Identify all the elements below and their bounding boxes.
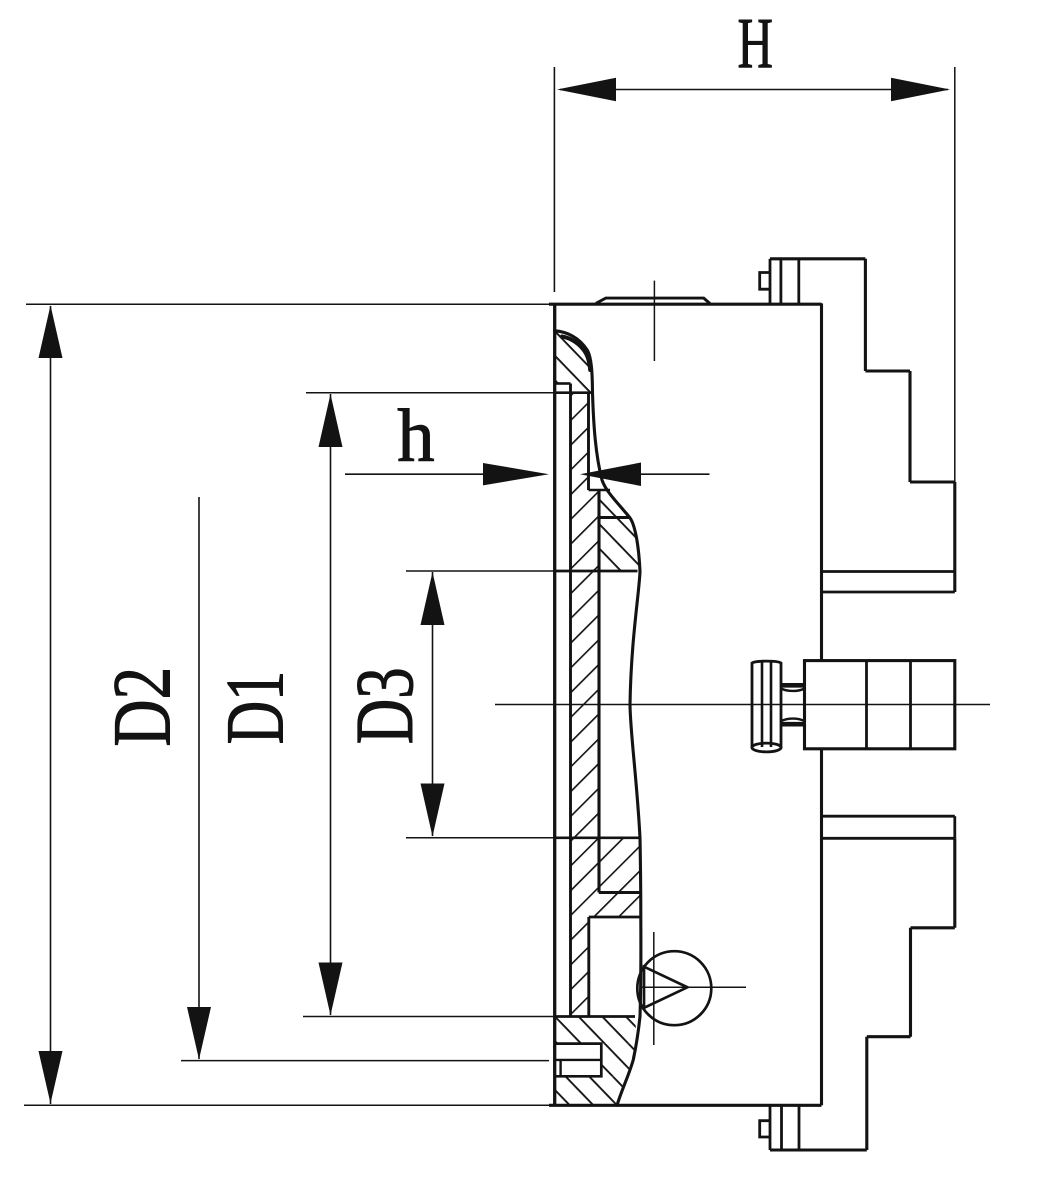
bottom edge [549, 1104, 822, 1107]
section hatch: body lower boss block [599, 838, 641, 917]
jaw key tab [760, 1121, 770, 1137]
dimension h [345, 394, 710, 486]
chuck body outline [549, 298, 822, 1105]
slot top edge [589, 916, 641, 919]
upper internal edge (D1 level internal) [555, 391, 593, 394]
jaw key tab [760, 273, 770, 290]
section hatch: bottom band [555, 1076, 625, 1105]
top chamfered boss [596, 298, 710, 303]
dimension D2 [24, 304, 549, 1105]
section hatch: chuck body top lobe [555, 331, 593, 393]
screw collar bars [781, 683, 805, 688]
svg-text:D1: D1 [208, 671, 301, 745]
svg-text:D2: D2 [98, 667, 189, 747]
bottom guide strip [822, 816, 955, 838]
top edge [549, 303, 822, 306]
section hatch: backplate column [571, 393, 600, 1017]
backplate internal edges [555, 384, 641, 1077]
top guide strip [822, 570, 955, 573]
rear groove top cap [555, 382, 571, 385]
bottom jaw [760, 838, 955, 1150]
lower boss top edge (D3 level internal) [555, 836, 640, 839]
right face upper segment [820, 303, 823, 660]
dimension D3 [338, 571, 555, 838]
top bolt centerline [653, 281, 655, 361]
main axis centerline [495, 704, 990, 706]
side jaw block (end view) [805, 661, 955, 749]
upper column right edge [587, 393, 590, 490]
h step edge [589, 489, 611, 491]
top jaw [760, 259, 955, 592]
lower slot left edge [587, 917, 590, 1017]
break line (freehand wavy section boundary) [555, 331, 641, 1106]
left rear face [553, 303, 556, 1105]
section hatch: band below slot [555, 1017, 637, 1044]
keyway box [555, 1044, 602, 1077]
slot bottom edge (D1 level internal) [555, 1015, 635, 1018]
lobe inner arc detail [562, 337, 590, 371]
bottom bolt: circle, cone point, centerlines [637, 932, 746, 1045]
section hatch: band right of keyway box [601, 1044, 637, 1077]
dimension D1 [208, 393, 554, 1017]
section hatch: body upper boss block [599, 490, 640, 572]
right face lower segment [820, 749, 823, 1106]
upper boss bottom edge (D3 level) [555, 570, 638, 573]
lower boss bottom edge [599, 891, 641, 894]
svg-text:H: H [737, 4, 772, 84]
column right edge / boss left edge [597, 490, 600, 893]
upper boss top edge [599, 516, 630, 519]
svg-text:h: h [397, 394, 434, 477]
side jaw clamping screw [752, 661, 805, 752]
rear recess column left edge [569, 384, 572, 1017]
dimension H [554, 4, 954, 482]
svg-text:D3: D3 [338, 667, 430, 744]
dimension line (inner, unlabelled) [181, 497, 549, 1061]
